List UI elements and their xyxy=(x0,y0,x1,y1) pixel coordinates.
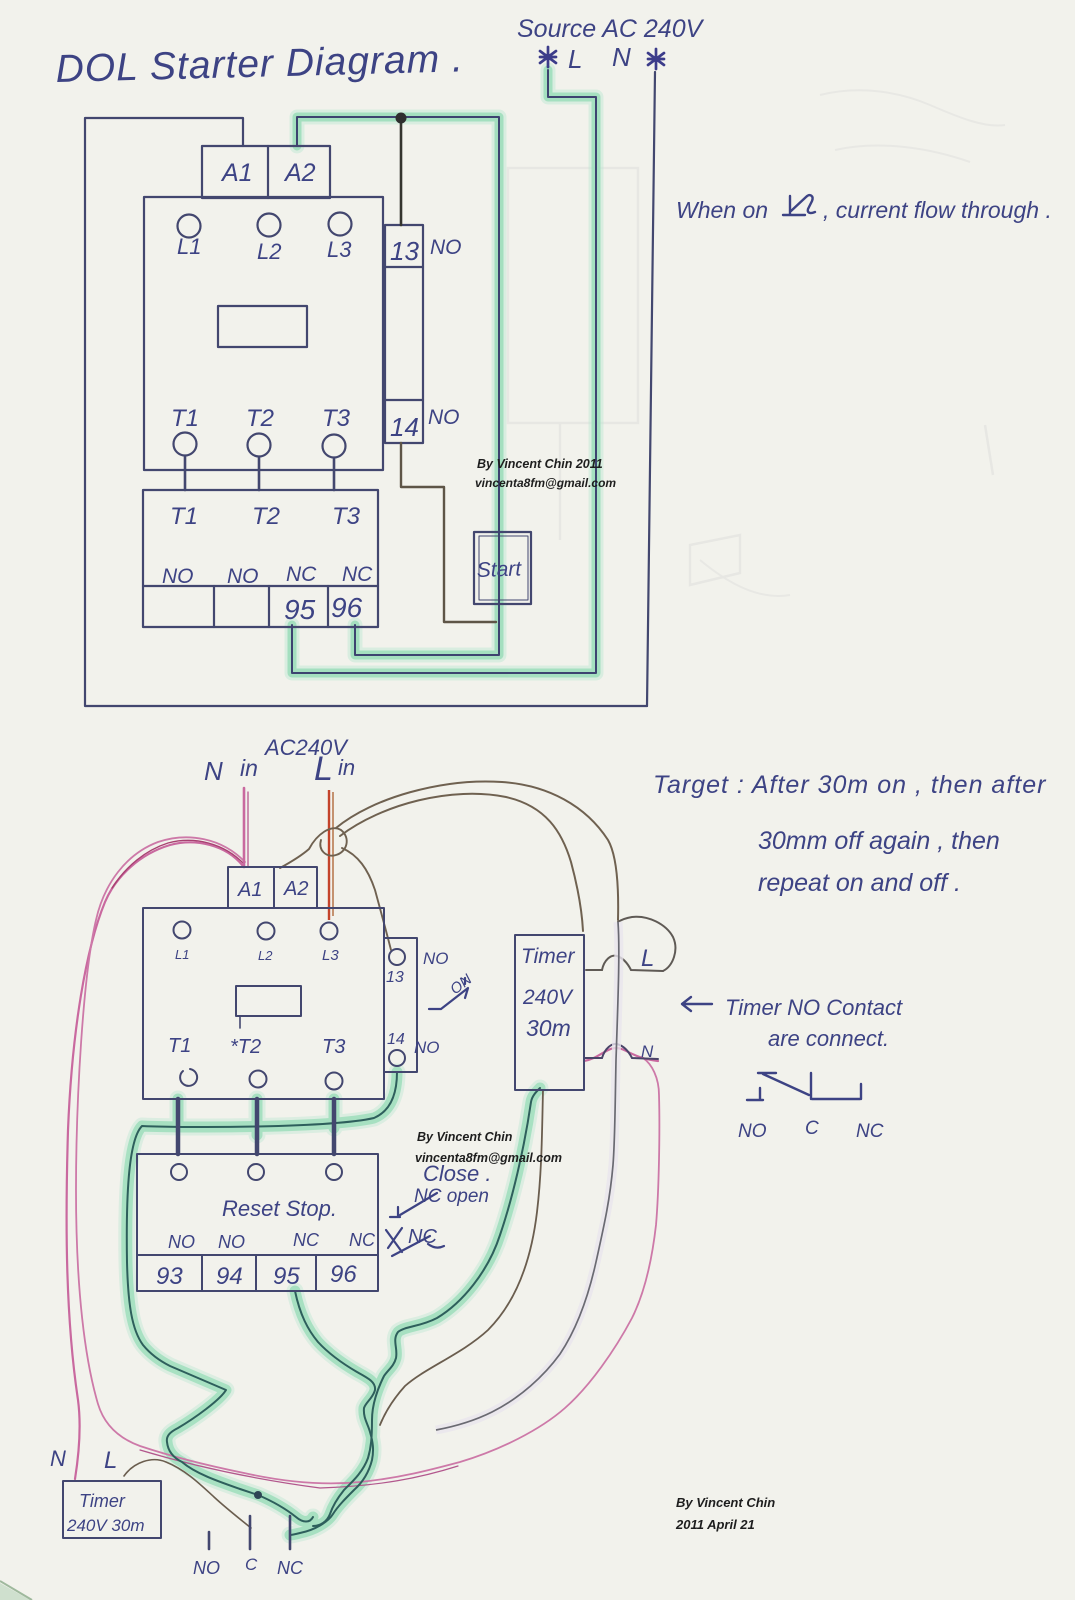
svg-text:C: C xyxy=(805,1118,819,1139)
svg-text:repeat on and off .: repeat on and off . xyxy=(758,869,961,897)
svg-text:96: 96 xyxy=(330,1261,357,1288)
svg-text:30mm off again , then: 30mm off again , then xyxy=(758,827,1000,855)
svg-text:NO: NO xyxy=(414,1038,440,1057)
svg-text:When on: When on xyxy=(676,197,768,223)
svg-text:NO: NO xyxy=(218,1232,245,1252)
svg-text:T3: T3 xyxy=(322,405,351,432)
svg-text:NC: NC xyxy=(856,1121,884,1142)
svg-text:NO: NO xyxy=(430,236,462,259)
svg-text:240V 30m: 240V 30m xyxy=(66,1516,145,1535)
svg-text:NO: NO xyxy=(428,406,460,429)
svg-text:L2: L2 xyxy=(257,239,281,264)
svg-text:L1: L1 xyxy=(175,947,189,962)
svg-text:A1: A1 xyxy=(237,879,262,901)
svg-text:95: 95 xyxy=(284,594,316,625)
svg-text:14: 14 xyxy=(387,1031,405,1048)
svg-text:AC240V: AC240V xyxy=(263,735,349,760)
svg-text:NO: NO xyxy=(738,1121,767,1142)
svg-text:T3: T3 xyxy=(332,503,361,530)
svg-text:Start: Start xyxy=(476,557,522,582)
svg-text:NO: NO xyxy=(193,1558,220,1578)
svg-text:in: in xyxy=(338,755,355,780)
svg-text:T1: T1 xyxy=(171,405,199,432)
svg-text:are connect.: are connect. xyxy=(768,1026,889,1051)
svg-text:, current flow through .: , current flow through . xyxy=(823,197,1052,223)
svg-text:NO: NO xyxy=(168,1232,195,1252)
svg-text:N: N xyxy=(641,1042,654,1061)
svg-text:96: 96 xyxy=(331,592,363,623)
svg-text:14: 14 xyxy=(390,412,419,442)
svg-text:A2: A2 xyxy=(283,159,316,187)
svg-text:240V: 240V xyxy=(522,986,574,1009)
svg-text:93: 93 xyxy=(156,1263,183,1290)
svg-text:NO: NO xyxy=(227,565,259,588)
svg-text:95: 95 xyxy=(273,1263,300,1290)
svg-text:13: 13 xyxy=(390,236,419,266)
svg-text:Timer: Timer xyxy=(521,945,575,968)
svg-text:NC open: NC open xyxy=(414,1186,489,1207)
svg-text:NC: NC xyxy=(293,1230,320,1250)
svg-text:L: L xyxy=(641,945,654,972)
svg-text:NC: NC xyxy=(342,563,373,586)
svg-text:By Vincent Chin: By Vincent Chin xyxy=(417,1130,513,1144)
svg-text:T1: T1 xyxy=(168,1035,191,1057)
svg-text:T2: T2 xyxy=(246,405,274,432)
svg-text:30m: 30m xyxy=(526,1015,571,1041)
svg-text:N: N xyxy=(612,42,631,72)
svg-text:By Vincent Chin 2011: By Vincent Chin 2011 xyxy=(477,457,603,471)
svg-text:NC: NC xyxy=(349,1230,376,1250)
svg-text:94: 94 xyxy=(216,1263,243,1290)
svg-text:A1: A1 xyxy=(220,159,253,187)
svg-text:L: L xyxy=(104,1447,117,1474)
svg-text:T1: T1 xyxy=(170,503,198,530)
svg-text:L2: L2 xyxy=(258,948,273,963)
svg-text:C: C xyxy=(245,1555,258,1574)
svg-text:Reset Stop.: Reset Stop. xyxy=(222,1196,337,1221)
svg-text:in: in xyxy=(240,755,258,781)
svg-text:N: N xyxy=(204,756,223,786)
svg-text:vincenta8fm@gmail.com: vincenta8fm@gmail.com xyxy=(475,476,616,490)
svg-text:N: N xyxy=(50,1446,66,1471)
svg-text:Close .: Close . xyxy=(423,1161,491,1186)
svg-text:NC: NC xyxy=(408,1226,437,1248)
svg-text:Source AC 240V: Source AC 240V xyxy=(517,15,705,43)
svg-text:A2: A2 xyxy=(283,878,308,900)
svg-text:L3: L3 xyxy=(327,237,352,262)
svg-text:T3: T3 xyxy=(322,1036,345,1058)
svg-text:NC: NC xyxy=(277,1558,304,1578)
svg-text:L3: L3 xyxy=(322,947,339,964)
svg-text:13: 13 xyxy=(386,969,404,986)
svg-text:T2: T2 xyxy=(252,503,280,530)
svg-text:Timer NO Contact: Timer NO Contact xyxy=(725,995,903,1020)
svg-text:Timer: Timer xyxy=(79,1491,126,1511)
svg-text:NO: NO xyxy=(162,565,194,588)
svg-text:L: L xyxy=(314,750,333,788)
svg-text:Target : After 30m on , then: Target : After 30m on , then after xyxy=(653,771,1047,799)
svg-text:2011 April 21: 2011 April 21 xyxy=(675,1517,755,1532)
svg-text:L1: L1 xyxy=(177,234,201,259)
svg-text:By Vincent Chin: By Vincent Chin xyxy=(676,1495,775,1510)
svg-text:NC: NC xyxy=(286,563,317,586)
svg-text:L: L xyxy=(568,44,582,74)
svg-text:NO: NO xyxy=(423,949,449,968)
svg-text:*T2: *T2 xyxy=(230,1036,261,1058)
